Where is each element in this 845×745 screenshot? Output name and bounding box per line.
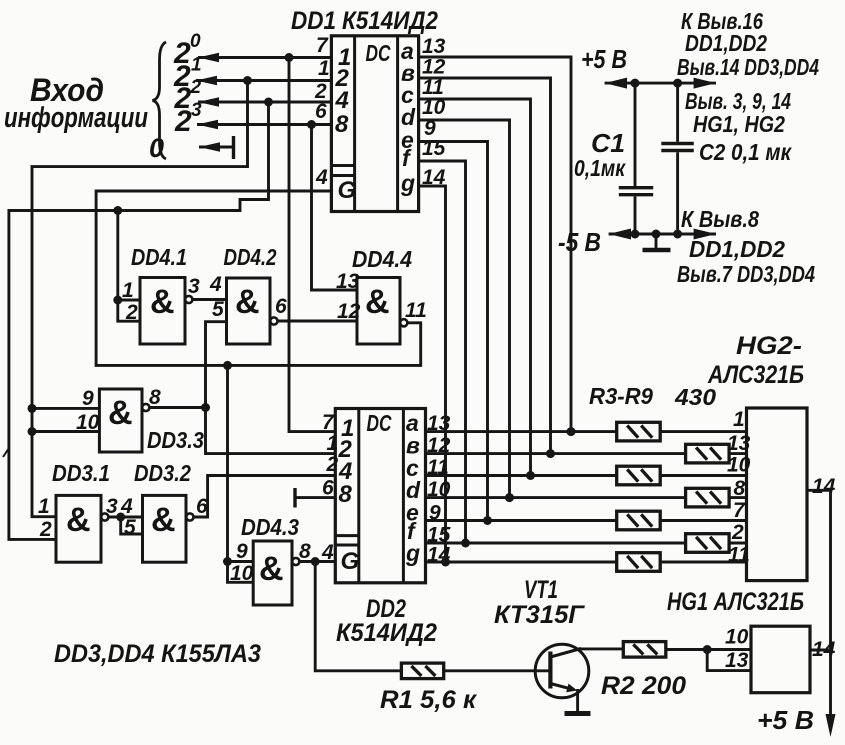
wire segment g row b DD2 pin to resistor <box>426 452 686 455</box>
svg-text:1: 1 <box>733 408 745 431</box>
wire input 0 row with terminal <box>199 146 234 149</box>
svg-text:&: & <box>150 283 175 321</box>
node DD4.3 in9 <box>223 557 232 566</box>
svg-text:3: 3 <box>106 495 118 518</box>
wire DD3.3 input 9 stub <box>32 407 99 410</box>
node junction d <box>505 493 514 502</box>
ground <box>643 234 671 250</box>
DD2 DC label <box>367 410 392 436</box>
svg-text:11: 11 <box>405 299 427 322</box>
wire R2 to HG1 <box>666 648 707 651</box>
HG1 pin14 wire <box>810 649 831 652</box>
power note texts <box>677 8 819 287</box>
gate DD4.2 <box>227 278 278 344</box>
svg-text:8: 8 <box>299 540 311 563</box>
svg-text:1: 1 <box>318 57 330 80</box>
wire DD4.2 out6 to DD4.4 in12 <box>278 320 358 323</box>
wire 2^3 net to DD4.4 pin13 <box>312 125 358 291</box>
wire DD3.1 out3 to DD3.2 in4 <box>108 516 142 519</box>
wire DD1 output c pin to vertical <box>419 99 531 476</box>
svg-text:HG1, HG2: HG1, HG2 <box>693 111 785 137</box>
svg-text:7: 7 <box>316 34 329 57</box>
svg-text:14: 14 <box>812 475 836 498</box>
resistor R7 <box>617 511 661 530</box>
svg-text:1: 1 <box>38 495 50 518</box>
DD2 label <box>336 595 437 647</box>
svg-text:КТ315Г: КТ315Г <box>494 601 586 629</box>
svg-text:DD4.4: DD4.4 <box>352 246 412 272</box>
HG1 pin numbers 10 13 14 <box>725 626 836 673</box>
wire input 2^3 row <box>197 123 331 126</box>
wire resistor to HG2 <box>660 430 746 433</box>
artifact tick <box>3 448 9 457</box>
DD1 right pin numbers 13 12 11 10 9 15 14 <box>422 35 446 189</box>
DD2 left pin numbers 7 1 2 6 <box>322 411 339 500</box>
wire DD1 output b pin to vertical <box>419 78 551 454</box>
wire segment g row d DD2 pin to resistor <box>426 496 686 499</box>
svg-text:DC: DC <box>367 410 392 436</box>
svg-text:DD4.2: DD4.2 <box>224 244 277 270</box>
wire resistor to HG2 <box>729 542 746 545</box>
svg-text:3: 3 <box>188 275 200 298</box>
+5V rail <box>605 82 716 85</box>
wire DD1 output d pin to vertical <box>419 120 510 498</box>
wire input 2^1 row <box>196 79 331 82</box>
resistors R3-R9 430 <box>589 383 716 410</box>
svg-text:&: & <box>151 501 176 539</box>
wire down to DD2 pin1 <box>206 408 336 454</box>
svg-text:430: 430 <box>674 384 716 410</box>
capacitor C2 <box>661 83 694 234</box>
wire up to DD4.2 in5 <box>206 322 227 408</box>
input brace <box>153 42 167 159</box>
node 2^3 tap <box>307 120 316 129</box>
svg-text:R3-R9: R3-R9 <box>589 383 653 409</box>
wire resistor to HG2 <box>729 496 746 499</box>
svg-text:DC: DC <box>366 40 391 66</box>
display HG2 АЛС321Б <box>747 408 808 581</box>
svg-text:&: & <box>108 394 133 432</box>
node 2^1 tap <box>243 76 252 85</box>
DD2 left column weight labels 1 2 4 8 G <box>338 415 360 575</box>
svg-text:4: 4 <box>315 166 328 189</box>
wire branch to DD4.3 inputs <box>228 365 254 561</box>
label DD3,DD4 К155ЛА3 <box>54 640 261 668</box>
svg-text:4: 4 <box>209 273 222 296</box>
svg-text:2: 2 <box>39 518 52 541</box>
node DD3.3 in9 <box>28 404 37 413</box>
wire DD1 output f pin to vertical <box>419 161 466 543</box>
resistor R4 <box>686 444 730 463</box>
node junction a <box>567 427 576 436</box>
gate DD3.2 <box>143 495 194 562</box>
gate DD3.3 <box>99 389 149 452</box>
wire input 2^0 row <box>198 56 331 59</box>
node C1 bottom <box>631 230 640 239</box>
node junction c <box>526 471 535 480</box>
node DD2 G <box>311 557 320 566</box>
svg-text:10: 10 <box>725 626 749 649</box>
svg-text:DD1: DD1 <box>291 7 336 35</box>
node G net branch <box>223 361 232 370</box>
wire segment g row g DD2 pin to resistor <box>426 561 617 564</box>
svg-text:R2 200: R2 200 <box>601 672 686 700</box>
node 2^2 tap <box>264 98 273 107</box>
wire segment g row a DD2 pin to resistor <box>426 430 617 433</box>
svg-text:2: 2 <box>731 521 744 544</box>
svg-text:C2 0,1 мк: C2 0,1 мк <box>699 139 792 165</box>
wire DD1 output a pin to vertical <box>419 57 571 432</box>
input bit labels <box>149 31 202 163</box>
gate DD4.3 <box>253 541 299 605</box>
svg-text:9: 9 <box>236 540 248 563</box>
wire 2^1 net down-left <box>32 81 248 517</box>
wire collector to R2 <box>576 647 623 650</box>
+5 В label bottom <box>757 705 814 735</box>
svg-text:2: 2 <box>326 453 339 476</box>
svg-text:6: 6 <box>275 295 287 318</box>
svg-text:8: 8 <box>335 111 349 138</box>
wire segment g row c DD2 pin to resistor <box>426 474 617 477</box>
svg-text:DD3.2: DD3.2 <box>134 460 191 486</box>
gate DD3.1 <box>56 495 108 562</box>
wire DD3.2 out6 to DD2 pin2 <box>194 476 336 518</box>
svg-text:К514ИД2: К514ИД2 <box>336 619 437 647</box>
wire resistor to HG2 <box>660 474 746 477</box>
svg-text:&: & <box>259 550 284 588</box>
resistor R3 <box>617 422 661 441</box>
DD2 output letters a-g <box>405 410 421 566</box>
svg-text:информации: информации <box>4 102 148 134</box>
wire DD3.3 out8 net <box>149 406 205 409</box>
svg-text:DD1,DD2: DD1,DD2 <box>689 236 785 262</box>
node C2 top <box>673 79 682 88</box>
wire branch to DD4.1 inputs <box>118 211 140 301</box>
svg-text:+5 В: +5 В <box>757 705 814 735</box>
node junction f <box>461 539 470 548</box>
node branch DD4.1 <box>113 206 122 215</box>
svg-text:0: 0 <box>190 31 201 52</box>
wire DD4.1 out3 to DD4.2 in4 <box>192 298 226 301</box>
node junction e <box>483 516 492 525</box>
node ground tap <box>652 230 661 239</box>
svg-text:0,1мк: 0,1мк <box>574 155 626 181</box>
svg-text:6: 6 <box>322 477 334 500</box>
svg-text:g: g <box>400 170 415 196</box>
svg-text:Выв.14 DD3,DD4: Выв.14 DD3,DD4 <box>677 54 819 80</box>
resistor R6 <box>686 488 730 507</box>
DD1 left column weight labels 1 2 4 8 G <box>335 44 357 204</box>
node C2 bottom <box>673 230 682 239</box>
svg-text:АЛС321Б: АЛС321Б <box>707 361 804 389</box>
svg-text:8: 8 <box>149 386 161 409</box>
node HG1 inputs <box>703 645 712 654</box>
resistor R2 200 <box>623 642 666 658</box>
node DD3.3 in10 <box>28 427 37 436</box>
wire 2^0 net to DD2 pin7 <box>289 58 335 432</box>
svg-text:DD1,DD2: DD1,DD2 <box>685 30 767 56</box>
gate DD4.1 <box>140 278 192 345</box>
svg-text:8: 8 <box>339 481 353 508</box>
node DD4.1 in1 <box>113 296 122 305</box>
display HG1 АЛС321Б <box>751 626 810 693</box>
svg-text:&: & <box>235 283 260 321</box>
svg-text:Выв.7 DD3,DD4: Выв.7 DD3,DD4 <box>677 261 815 287</box>
svg-text:DD3.1: DD3.1 <box>52 460 110 486</box>
wire resistor to HG2 <box>660 519 746 522</box>
HG2 pin 14 label <box>812 475 836 498</box>
svg-text:5: 5 <box>124 516 136 539</box>
svg-text:DD3.3: DD3.3 <box>147 427 204 453</box>
input labels Вход информации <box>4 72 148 134</box>
wire resistor to HG2 <box>729 452 746 455</box>
svg-text:&: & <box>66 501 91 539</box>
wire resistor to HG2 <box>660 561 746 564</box>
DD1 label <box>291 7 438 35</box>
resistor R8 <box>686 534 730 553</box>
DD2 pin 4 label at G <box>321 541 334 564</box>
HG2 pin numbers 1 13 10 8 7 2 11 <box>727 408 751 567</box>
resistor R9 <box>617 553 661 572</box>
wire DD2 pin6 terminal <box>295 496 335 499</box>
svg-text:13: 13 <box>725 649 749 672</box>
decoder DD1 К514ИД2 <box>331 36 418 212</box>
decoder DD2 К514ИД2 <box>335 409 425 583</box>
svg-text:G: G <box>338 177 357 204</box>
wire R1 to base <box>444 669 551 672</box>
svg-text:7: 7 <box>733 499 746 522</box>
svg-text:2: 2 <box>174 105 192 138</box>
svg-text:C1: C1 <box>591 128 625 158</box>
svg-text:-5 В: -5 В <box>558 227 601 257</box>
svg-text:1: 1 <box>327 432 339 455</box>
svg-text:0: 0 <box>149 133 164 163</box>
svg-text:R1 5,6 к: R1 5,6 к <box>380 686 477 714</box>
ground at emitter <box>565 689 591 714</box>
svg-text:&: & <box>365 283 390 321</box>
svg-text:HG1 АЛС321Б: HG1 АЛС321Б <box>667 588 804 616</box>
wire input 2^2 row <box>198 101 331 104</box>
wire down to R1 <box>315 562 401 671</box>
node C1 top <box>631 79 640 88</box>
svg-text:+5 В: +5 В <box>581 44 627 74</box>
DD1 output letters a-g <box>400 38 416 196</box>
wire 2^2 net down-left <box>9 102 269 539</box>
gate DD4.4 <box>357 278 407 345</box>
svg-text:DD4.3: DD4.3 <box>241 514 299 540</box>
wire segment g row e DD2 pin to resistor <box>426 519 617 522</box>
svg-text:VT1: VT1 <box>524 576 558 604</box>
DD1 left pin numbers 7 1 2 6 4 <box>314 34 330 189</box>
wire DD3.3 input 10 stub <box>32 430 99 433</box>
svg-text:4: 4 <box>335 87 349 114</box>
svg-text:5: 5 <box>212 298 224 321</box>
-5V rail <box>609 233 716 236</box>
wire tie to DD3.2 in5 <box>121 517 143 534</box>
svg-text:DD4.1: DD4.1 <box>131 244 187 270</box>
svg-text:HG2-: HG2- <box>736 332 802 360</box>
wire DD4.3 out8 to DD2 G <box>299 560 335 563</box>
svg-text:К Выв.8: К Выв.8 <box>681 206 759 232</box>
node junction g <box>441 558 450 567</box>
svg-text:G: G <box>341 548 360 575</box>
resistor R1 5,6к <box>401 663 443 679</box>
node 2^0 tap <box>285 53 294 62</box>
node DD3.3 out <box>201 403 210 412</box>
HG1 input wires from junction <box>707 648 751 651</box>
node DD3.2 in tie <box>116 513 125 522</box>
resistor R5 <box>617 466 661 485</box>
DD1 DC label <box>366 40 391 66</box>
svg-text:9: 9 <box>82 387 94 410</box>
wire DD1 output g pin to vertical <box>419 186 446 562</box>
node junction b <box>546 449 555 458</box>
wire DD1 G net from DD4.4 out11 <box>96 191 421 365</box>
wire +5V vertical to HG1 pin14 and arrow <box>829 490 832 716</box>
svg-text:DD3,DD4 К155ЛА3: DD3,DD4 К155ЛА3 <box>54 640 261 668</box>
svg-text:К514ИД2: К514ИД2 <box>342 7 438 35</box>
svg-text:g: g <box>405 540 420 566</box>
transistor VT1 КТ315Г <box>535 644 589 698</box>
HG2 pin14 wire <box>807 489 831 492</box>
wire DD1 output e pin to vertical <box>419 142 488 521</box>
wire segment g row f DD2 pin to resistor <box>426 542 686 545</box>
capacitor C1 <box>619 83 653 234</box>
DD2 right pin numbers 13 12 11 10 9 15 14 <box>427 412 451 567</box>
